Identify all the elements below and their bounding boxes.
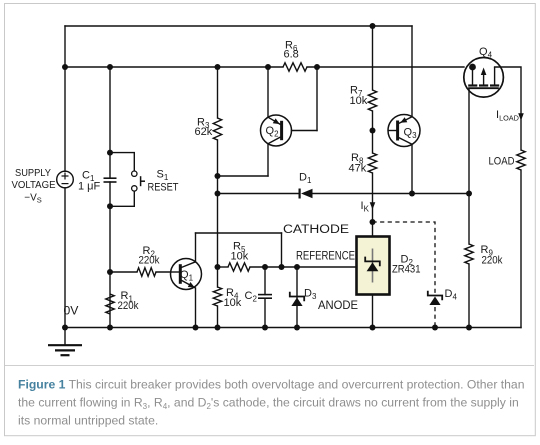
wire Q2 base to R6 right node xyxy=(292,130,318,132)
Q4 body leg with arrow xyxy=(483,73,485,85)
resistor R5 10k xyxy=(228,263,250,271)
wire bottom 0V rail xyxy=(65,327,521,329)
wire Q1 collector riser xyxy=(195,233,197,262)
arrow ILOAD current xyxy=(518,113,524,120)
svg-text:10k: 10k xyxy=(350,95,368,107)
junction reference row / C2 xyxy=(262,264,268,270)
arrow IK current xyxy=(370,202,376,209)
transistor Q2 xyxy=(261,115,292,146)
junction 0V rail / D3 xyxy=(294,325,300,331)
wire Q2 collector to reference column y=176 xyxy=(218,175,269,177)
resistor R1 220k xyxy=(106,294,114,314)
junction top rail / R7 column xyxy=(370,23,376,29)
zener diode D3 xyxy=(290,292,304,306)
svg-text:0V: 0V xyxy=(64,304,80,318)
resistor R2 220k xyxy=(137,268,156,276)
svg-text:10k: 10k xyxy=(231,251,249,263)
svg-text:6.8: 6.8 xyxy=(284,49,299,61)
resistor LOAD xyxy=(517,150,525,170)
resistor R6 6.8 xyxy=(283,63,307,71)
junction supply rail / source column xyxy=(62,64,68,70)
junction supply rail / Q2 emitter xyxy=(265,64,271,70)
junction C1 column / R2 xyxy=(107,269,113,275)
wire reference row y=267 xyxy=(218,266,229,268)
svg-text:62k: 62k xyxy=(195,126,213,138)
svg-text:220k: 220k xyxy=(139,255,160,267)
junction C1 bottom / S1 branch xyxy=(107,203,113,209)
wire D2 anode lead xyxy=(372,295,374,328)
junction 0V rail / D4 xyxy=(432,325,438,331)
switch S1 actuator xyxy=(141,176,145,186)
svg-text:ZR431: ZR431 xyxy=(392,264,421,276)
junction reference row / D3 xyxy=(294,264,300,270)
wire Q4 source to right branch x=521 xyxy=(495,67,521,150)
svg-text:220k: 220k xyxy=(118,300,139,312)
Q4 gate bar xyxy=(468,87,499,89)
junction Q4 drain leg / supply rail xyxy=(469,64,476,71)
D2 internal triangle xyxy=(367,262,379,271)
wire Q1 collector top row y=233 xyxy=(196,232,282,234)
junction 0V rail / R4 xyxy=(215,325,221,331)
wire second supply rail y=67 left of R6 xyxy=(65,66,283,68)
wire Q2 emitter drop x=268 xyxy=(267,67,269,117)
junction 0V rail / D2 anode xyxy=(370,325,376,331)
voltage source VS circle xyxy=(57,171,74,188)
resistor R8 47k xyxy=(368,153,376,173)
svg-text:its normal untripped state.: its normal untripped state. xyxy=(18,413,158,427)
switch S1 contact circles xyxy=(132,171,137,191)
wire Q1 collector drop to reference row x=281.5 xyxy=(281,233,283,267)
resistor R7 10k xyxy=(368,90,376,111)
wire supply column x=65 upper xyxy=(64,26,66,171)
Q4 channel pads xyxy=(468,84,477,86)
junction reference row / Q1 collector xyxy=(279,264,285,270)
junction D1 row / Q4 gate column xyxy=(466,191,472,197)
junction 0V rail / R9 xyxy=(466,325,472,331)
caption text xyxy=(18,377,524,427)
svg-text:SUPPLY: SUPPLY xyxy=(15,168,51,179)
wire second supply rail y=67 right of R6 to Q4 xyxy=(307,66,464,68)
svg-text:VOLTAGE: VOLTAGE xyxy=(12,180,56,191)
wire C1 column lower xyxy=(109,182,111,328)
wire Q3 collector drop x=412 xyxy=(411,144,413,193)
svg-text:RESET: RESET xyxy=(148,182,179,194)
wire S1 branch bottom xyxy=(110,191,134,206)
zener diode D4 xyxy=(428,291,442,305)
svg-text:10k: 10k xyxy=(224,297,242,309)
junction supply rail / R6 right xyxy=(314,64,320,70)
junction 0V rail / C2 xyxy=(262,325,268,331)
transistor Q3 xyxy=(388,115,420,147)
junction R7-R8 / Q3 base xyxy=(370,128,376,134)
junction reference node xyxy=(215,264,221,270)
junction supply rail / C1 column xyxy=(107,64,113,70)
svg-text:Figure 1 This circuit breaker: Figure 1 This circuit breaker provides b… xyxy=(18,377,524,391)
junction 0V rail / R1 xyxy=(107,325,113,331)
Q4 drain leg xyxy=(472,67,474,85)
svg-text:REFERENCE: REFERENCE xyxy=(296,249,355,263)
svg-text:ANODE: ANODE xyxy=(318,298,358,312)
wire right branch below LOAD xyxy=(520,170,522,328)
dashed net from cathode node to D4 xyxy=(373,222,436,328)
junction cathode node / dashed branch xyxy=(370,219,376,225)
wire R7/R8 cathode column x=372.5 xyxy=(372,26,374,90)
ground symbol xyxy=(48,328,82,356)
wire supply column x=65 lower xyxy=(64,188,66,328)
voltage source minus sign xyxy=(62,183,69,185)
svg-text:the current flowing in R3, R4,: the current flowing in R3, R4, and D2's … xyxy=(18,395,519,411)
label SUPPLY VOLTAGE -VS xyxy=(12,168,56,205)
wire top rail from supply column to Q3 emitter drop xyxy=(65,25,412,27)
capacitor C2 plates xyxy=(258,295,272,299)
junction D1 row / Q3 collector xyxy=(409,191,415,197)
voltage source plus sign xyxy=(62,173,69,184)
capacitor C1 1uF plates xyxy=(104,178,117,182)
transistor Q1 xyxy=(171,259,202,290)
D2 internal zener bar xyxy=(365,257,380,267)
shunt regulator D2 ZR431 box xyxy=(357,237,390,295)
wire Q1 emitter drop xyxy=(195,288,197,328)
wire D3 column x=297 xyxy=(296,267,298,328)
resistor R9 220k xyxy=(465,244,473,264)
junction R3 column / D1 row xyxy=(215,191,221,197)
wire C1 column upper xyxy=(109,67,111,178)
svg-text:1 μF: 1 μF xyxy=(78,181,101,193)
junction 0V rail / ground xyxy=(62,325,68,331)
wire C2 column x=265 xyxy=(264,267,266,295)
transistor Q4 MOSFET xyxy=(464,58,504,98)
wire Q2 collector drop x=268 xyxy=(267,144,269,176)
junction 0V rail / Q1 emitter xyxy=(193,325,199,331)
wire S1 branch top xyxy=(110,153,134,172)
svg-text:47k: 47k xyxy=(349,163,367,175)
wire Q4 gate column x=469 down to R9 xyxy=(468,88,470,244)
wire R3/R4 reference column x=217.5 xyxy=(217,67,219,118)
resistor R3 62k xyxy=(213,118,221,140)
wire R2 row y=272 xyxy=(110,271,137,273)
junction supply rail / R3 column xyxy=(215,64,221,70)
svg-text:CATHODE: CATHODE xyxy=(283,222,349,236)
svg-text:LOAD: LOAD xyxy=(489,156,515,168)
svg-text:220k: 220k xyxy=(482,255,503,267)
Q4 source leg xyxy=(494,67,496,85)
junction R3 column / Q2 collector xyxy=(215,173,221,179)
wire Q3 emitter drop x=412 xyxy=(411,26,413,117)
D2 internal vertical lead xyxy=(372,249,374,283)
resistor R4 10k xyxy=(213,287,221,306)
junction C1 top / S1 branch xyxy=(107,150,113,156)
diode D1 xyxy=(300,189,313,199)
wire D1 row y=193.5 xyxy=(218,193,300,195)
